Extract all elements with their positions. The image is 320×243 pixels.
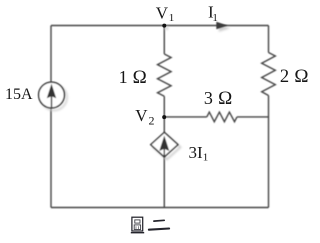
svg-text:3I: 3I bbox=[189, 143, 204, 162]
svg-text:Ω: Ω bbox=[218, 88, 232, 109]
svg-text:Ω: Ω bbox=[294, 66, 308, 87]
resistor R1 1-ohm (vertical zigzag) bbox=[158, 54, 172, 96]
wire: dependent source to bottom bbox=[163, 157, 165, 208]
resistor R3 3-ohm (horizontal zigzag) bbox=[207, 112, 237, 122]
arrowhead for current I1 on top wire bbox=[216, 22, 227, 29]
caption glyph TU (figure) bbox=[131, 217, 144, 233]
svg-text:1: 1 bbox=[119, 67, 128, 87]
svg-text:V: V bbox=[156, 4, 169, 23]
svg-text:2: 2 bbox=[149, 114, 155, 128]
svg-text:1: 1 bbox=[169, 12, 175, 24]
svg-text:V: V bbox=[135, 106, 148, 125]
wire: right side lower (from 2-ohm to bottom) bbox=[268, 96, 270, 208]
shadow of node V1 dot bbox=[165, 27, 169, 31]
wire: bottom side bbox=[51, 207, 269, 209]
svg-text:Ω: Ω bbox=[133, 67, 147, 88]
svg-text:15A: 15A bbox=[5, 86, 33, 103]
shadow of current source IS circle bbox=[41, 85, 67, 111]
node V1 junction dot bbox=[162, 24, 166, 28]
wire: R1 to V2 to dependent source bbox=[163, 96, 165, 132]
svg-text:1: 1 bbox=[203, 152, 209, 164]
svg-text:3: 3 bbox=[204, 88, 213, 108]
wire: right side upper (to 2-ohm) bbox=[268, 26, 270, 53]
resistor R2 2-ohm (vertical zigzag) bbox=[262, 53, 276, 96]
wire: left side lower (from 15A source to bottom) bbox=[50, 108, 52, 208]
current source IS 15A (circle with up arrow) bbox=[39, 82, 65, 108]
wire: R3 to right side bbox=[237, 116, 269, 118]
shadow of dependent source diamond bbox=[153, 135, 180, 159]
wire: V2 row to resistor R3 bbox=[164, 116, 207, 118]
node V2 junction dot bbox=[162, 115, 166, 119]
wire: left side upper (to 15A source) bbox=[50, 26, 52, 83]
caption glyph ER (two) bbox=[149, 220, 169, 229]
shadow of arrowhead I1 bbox=[219, 25, 230, 32]
svg-text:1: 1 bbox=[212, 12, 218, 24]
wire: V1 to resistor R1 bbox=[163, 26, 165, 55]
svg-text:2: 2 bbox=[280, 67, 289, 87]
dependent current source 3I1 (diamond with up arrow) bbox=[151, 132, 178, 157]
wire: top side V1 row bbox=[51, 25, 269, 27]
